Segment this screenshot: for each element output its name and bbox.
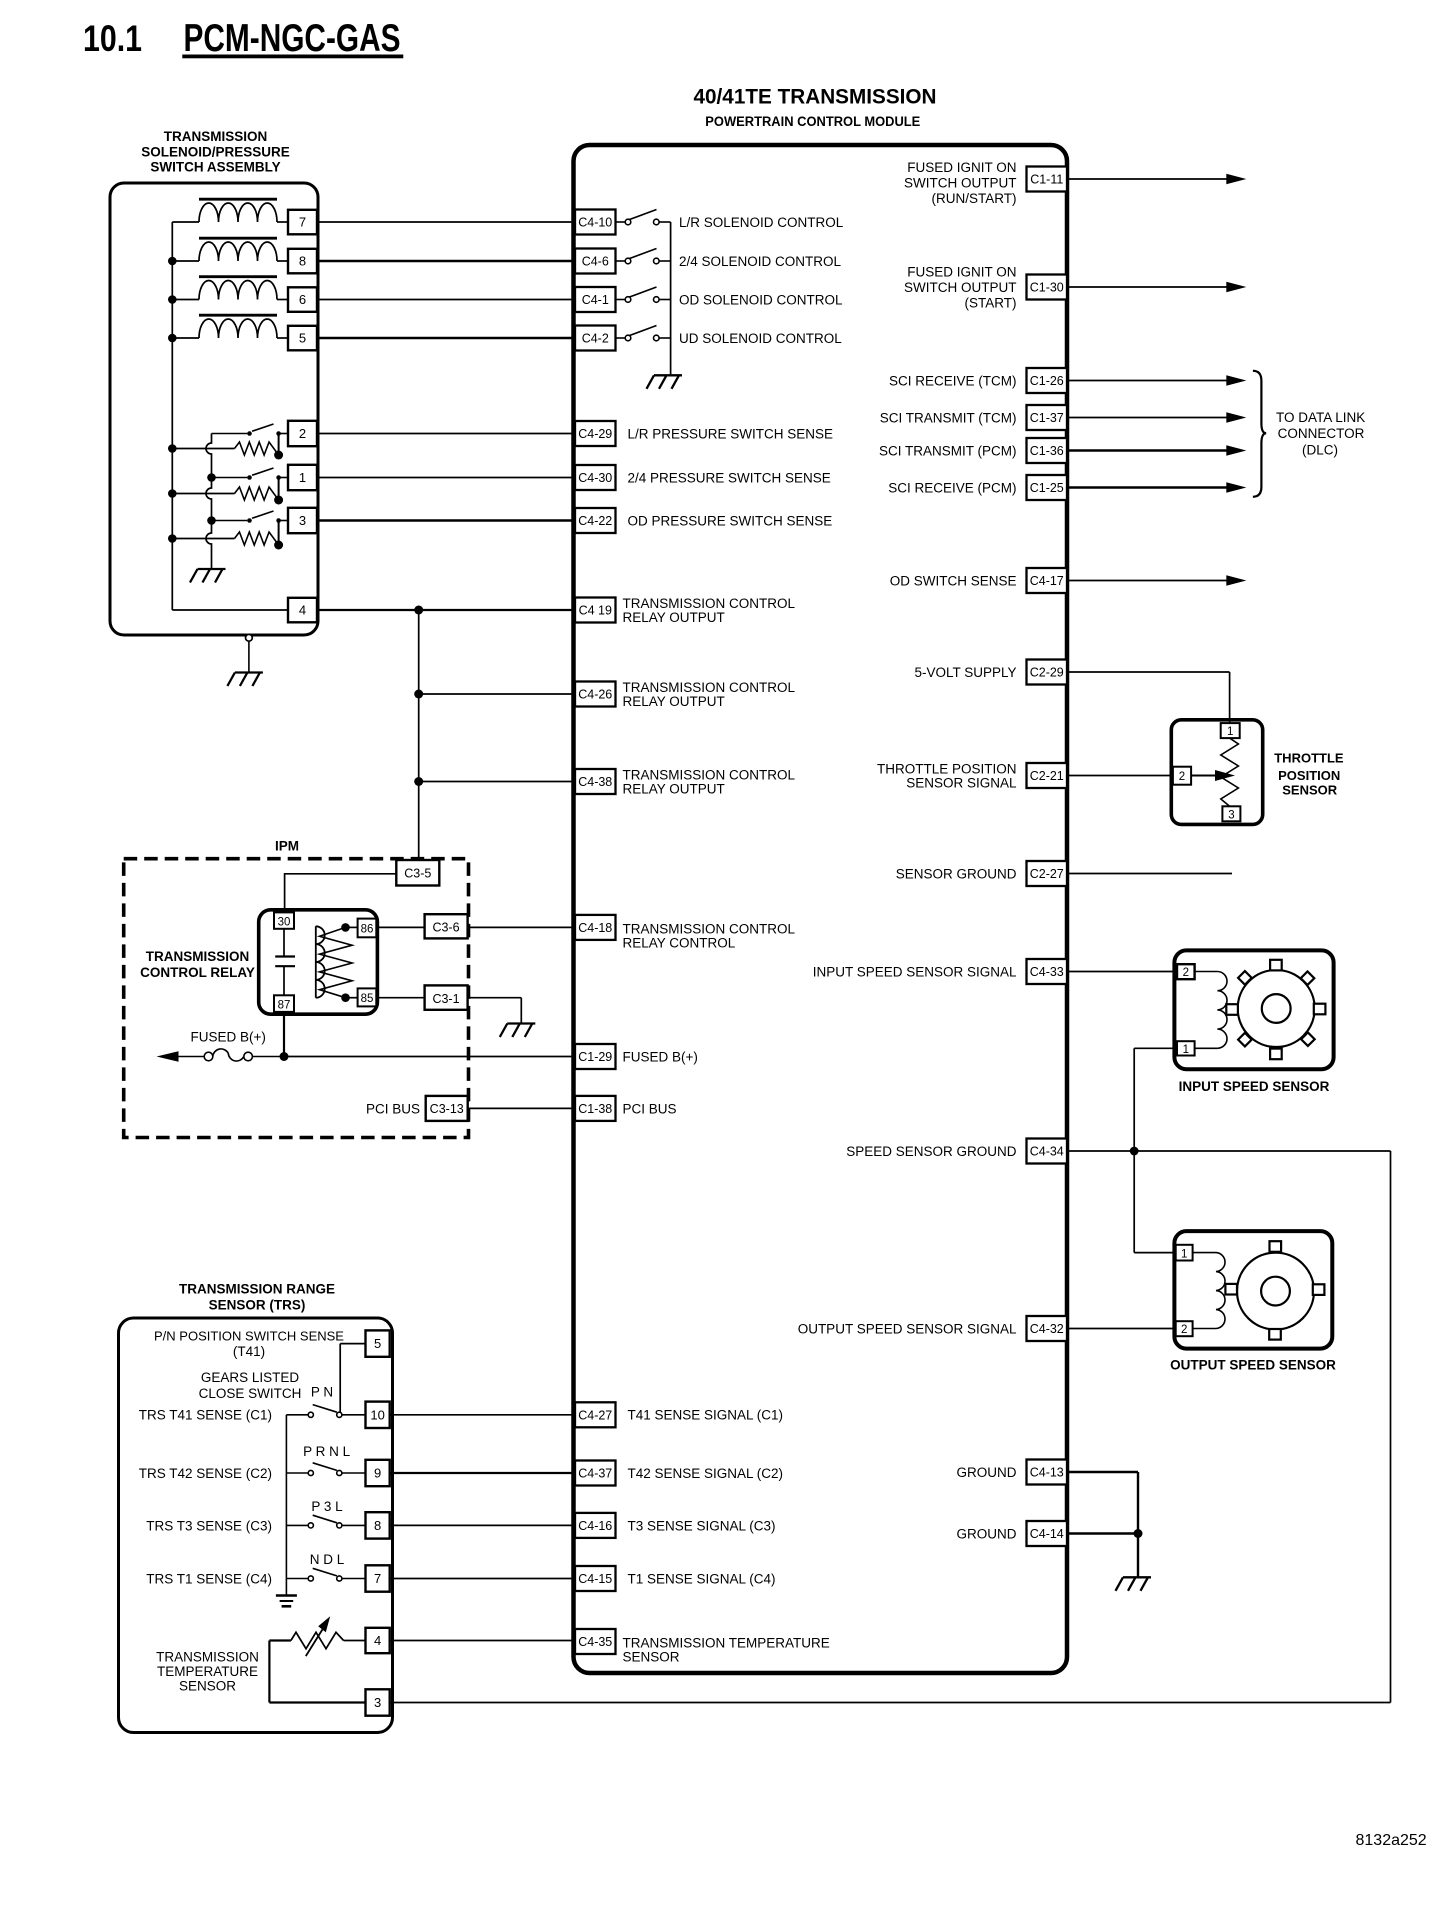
svg-text:C4-34: C4-34: [1030, 1145, 1064, 1159]
svg-text:GROUND: GROUND: [957, 1465, 1017, 1480]
svg-text:TRS T42 SENSE (C2): TRS T42 SENSE (C2): [139, 1466, 272, 1481]
svg-text:TRANSMISSION CONTROL: TRANSMISSION CONTROL: [623, 596, 796, 611]
svg-text:SCI TRANSMIT (TCM): SCI TRANSMIT (TCM): [880, 410, 1017, 425]
svg-text:TRANSMISSION: TRANSMISSION: [156, 1650, 259, 1665]
svg-text:C3-6: C3-6: [432, 921, 459, 935]
svg-text:C4-15: C4-15: [578, 1572, 612, 1586]
svg-text:UD SOLENOID CONTROL: UD SOLENOID CONTROL: [679, 331, 842, 346]
svg-text:TEMPERATURE: TEMPERATURE: [157, 1664, 258, 1679]
svg-text:SWITCH OUTPUT: SWITCH OUTPUT: [904, 175, 1017, 190]
svg-text:SENSOR: SENSOR: [179, 1679, 236, 1694]
svg-text:C4 19: C4 19: [579, 604, 612, 618]
svg-text:1: 1: [299, 470, 306, 485]
svg-text:IPM: IPM: [275, 839, 299, 854]
svg-text:SPEED SENSOR GROUND: SPEED SENSOR GROUND: [846, 1144, 1017, 1159]
svg-text:C4-16: C4-16: [578, 1519, 612, 1533]
svg-text:7: 7: [299, 215, 306, 230]
svg-text:8: 8: [374, 1518, 381, 1533]
svg-text:C1-37: C1-37: [1030, 411, 1064, 425]
svg-text:THROTTLE POSITION: THROTTLE POSITION: [877, 761, 1017, 776]
svg-text:PCI BUS: PCI BUS: [623, 1101, 677, 1116]
svg-text:T3 SENSE SIGNAL (C3): T3 SENSE SIGNAL (C3): [628, 1518, 776, 1533]
svg-text:3: 3: [374, 1695, 381, 1710]
svg-text:7: 7: [374, 1571, 381, 1586]
svg-text:C3-13: C3-13: [430, 1102, 464, 1116]
svg-text:2: 2: [1179, 771, 1185, 783]
svg-text:(T41): (T41): [233, 1344, 265, 1359]
svg-text:OUTPUT SPEED SENSOR SIGNAL: OUTPUT SPEED SENSOR SIGNAL: [798, 1321, 1017, 1336]
svg-text:9: 9: [374, 1466, 381, 1481]
svg-text:TRANSMISSION RANGE: TRANSMISSION RANGE: [179, 1282, 335, 1297]
svg-text:C4-29: C4-29: [578, 427, 612, 441]
svg-text:CLOSE SWITCH: CLOSE SWITCH: [199, 1386, 302, 1401]
svg-text:C4-32: C4-32: [1030, 1322, 1064, 1336]
svg-text:SOLENOID/PRESSURE: SOLENOID/PRESSURE: [141, 145, 290, 160]
svg-text:P 3 L: P 3 L: [311, 1499, 343, 1514]
svg-text:SCI RECEIVE (PCM): SCI RECEIVE (PCM): [888, 480, 1016, 495]
svg-text:1: 1: [1227, 726, 1233, 738]
svg-text:C3-1: C3-1: [432, 992, 459, 1006]
svg-text:OD SOLENOID CONTROL: OD SOLENOID CONTROL: [679, 292, 843, 307]
svg-text:TRANSMISSION CONTROL: TRANSMISSION CONTROL: [623, 921, 796, 936]
svg-text:C4-22: C4-22: [578, 514, 612, 528]
svg-text:(RUN/START): (RUN/START): [932, 191, 1017, 206]
svg-text:2: 2: [1181, 1324, 1187, 1336]
svg-text:C4-33: C4-33: [1030, 965, 1064, 979]
svg-text:FUSED B(+): FUSED B(+): [191, 1030, 266, 1045]
svg-text:FUSED IGNIT ON: FUSED IGNIT ON: [907, 264, 1016, 279]
svg-text:C4-38: C4-38: [578, 775, 612, 789]
svg-text:N D L: N D L: [310, 1552, 345, 1567]
svg-text:40/41TE TRANSMISSION: 40/41TE TRANSMISSION: [694, 85, 937, 109]
svg-text:FUSED IGNIT ON: FUSED IGNIT ON: [907, 160, 1016, 175]
svg-text:T1 SENSE SIGNAL (C4): T1 SENSE SIGNAL (C4): [628, 1571, 776, 1586]
svg-text:3: 3: [1228, 809, 1234, 821]
svg-text:TRANSMISSION CONTROL: TRANSMISSION CONTROL: [623, 767, 796, 782]
svg-text:SWITCH ASSEMBLY: SWITCH ASSEMBLY: [150, 160, 280, 175]
svg-text:TRS T3 SENSE (C3): TRS T3 SENSE (C3): [146, 1518, 272, 1533]
svg-text:RELAY OUTPUT: RELAY OUTPUT: [623, 610, 725, 625]
svg-text:PCM-NGC-GAS: PCM-NGC-GAS: [184, 17, 401, 60]
svg-text:C4-27: C4-27: [578, 1408, 612, 1422]
svg-text:2: 2: [299, 426, 306, 441]
svg-text:2/4 SOLENOID CONTROL: 2/4 SOLENOID CONTROL: [679, 254, 842, 269]
svg-text:OD PRESSURE SWITCH SENSE: OD PRESSURE SWITCH SENSE: [628, 513, 833, 528]
svg-text:C4-14: C4-14: [1030, 1527, 1064, 1541]
svg-text:2/4 PRESSURE SWITCH SENSE: 2/4 PRESSURE SWITCH SENSE: [628, 470, 831, 485]
svg-text:1: 1: [1181, 1248, 1187, 1260]
svg-text:POSITION: POSITION: [1278, 768, 1340, 783]
svg-text:C4-6: C4-6: [582, 255, 609, 269]
svg-text:L/R PRESSURE SWITCH SENSE: L/R PRESSURE SWITCH SENSE: [628, 426, 834, 441]
svg-text:OD SWITCH SENSE: OD SWITCH SENSE: [890, 573, 1017, 588]
svg-text:C1-26: C1-26: [1030, 374, 1064, 388]
svg-text:P/N POSITION SWITCH SENSE: P/N POSITION SWITCH SENSE: [154, 1329, 344, 1344]
svg-text:5: 5: [299, 331, 306, 346]
svg-text:TRS T1 SENSE (C4): TRS T1 SENSE (C4): [146, 1571, 272, 1586]
svg-text:2: 2: [1183, 967, 1189, 979]
svg-text:85: 85: [361, 993, 374, 1005]
svg-text:4: 4: [374, 1633, 381, 1648]
svg-text:POWERTRAIN CONTROL MODULE: POWERTRAIN CONTROL MODULE: [705, 114, 920, 129]
svg-text:3: 3: [299, 513, 306, 528]
svg-text:SENSOR GROUND: SENSOR GROUND: [896, 866, 1017, 881]
svg-text:OUTPUT SPEED SENSOR: OUTPUT SPEED SENSOR: [1170, 1358, 1336, 1373]
svg-text:C4-35: C4-35: [578, 1635, 612, 1649]
svg-text:P N: P N: [311, 1385, 333, 1400]
svg-text:P R N L: P R N L: [303, 1444, 351, 1459]
svg-text:L/R SOLENOID CONTROL: L/R SOLENOID CONTROL: [679, 215, 844, 230]
svg-text:C2-29: C2-29: [1030, 666, 1064, 680]
svg-text:8132a252: 8132a252: [1356, 1832, 1427, 1849]
svg-text:C4-37: C4-37: [578, 1467, 612, 1481]
svg-text:SENSOR: SENSOR: [623, 1649, 680, 1664]
svg-text:C2-21: C2-21: [1030, 769, 1064, 783]
svg-text:CONNECTOR: CONNECTOR: [1278, 426, 1365, 441]
svg-text:30: 30: [278, 916, 291, 928]
svg-text:RELAY OUTPUT: RELAY OUTPUT: [623, 781, 725, 796]
svg-text:C4-30: C4-30: [578, 471, 612, 485]
svg-text:TRS T41 SENSE (C1): TRS T41 SENSE (C1): [139, 1408, 272, 1423]
svg-text:C4-26: C4-26: [578, 688, 612, 702]
svg-text:GROUND: GROUND: [957, 1526, 1017, 1541]
svg-text:PCI BUS: PCI BUS: [366, 1101, 420, 1116]
svg-text:C4-10: C4-10: [578, 216, 612, 230]
svg-text:TRANSMISSION CONTROL: TRANSMISSION CONTROL: [623, 680, 796, 695]
svg-text:INPUT SPEED SENSOR SIGNAL: INPUT SPEED SENSOR SIGNAL: [813, 964, 1017, 979]
svg-text:10: 10: [370, 1407, 384, 1422]
svg-text:SCI RECEIVE (TCM): SCI RECEIVE (TCM): [889, 373, 1017, 388]
svg-text:C4-17: C4-17: [1030, 574, 1064, 588]
svg-text:C1-11: C1-11: [1030, 173, 1063, 187]
svg-text:(START): (START): [965, 295, 1017, 310]
svg-text:SENSOR: SENSOR: [1282, 783, 1338, 798]
svg-text:TRANSMISSION: TRANSMISSION: [146, 949, 250, 964]
svg-text:TRANSMISSION TEMPERATURE: TRANSMISSION TEMPERATURE: [623, 1635, 830, 1650]
svg-text:C1-29: C1-29: [578, 1050, 612, 1064]
svg-text:T41 SENSE SIGNAL (C1): T41 SENSE SIGNAL (C1): [628, 1408, 784, 1423]
svg-text:THROTTLE: THROTTLE: [1274, 751, 1344, 766]
svg-text:SWITCH OUTPUT: SWITCH OUTPUT: [904, 280, 1017, 295]
svg-text:TRANSMISSION: TRANSMISSION: [164, 129, 268, 144]
svg-text:C1-38: C1-38: [578, 1102, 612, 1116]
svg-text:C1-25: C1-25: [1030, 481, 1064, 495]
svg-text:SCI TRANSMIT (PCM): SCI TRANSMIT (PCM): [879, 443, 1017, 458]
svg-text:CONTROL RELAY: CONTROL RELAY: [140, 965, 255, 980]
svg-text:C4-18: C4-18: [578, 921, 612, 935]
svg-text:INPUT SPEED SENSOR: INPUT SPEED SENSOR: [1179, 1079, 1330, 1094]
svg-text:8: 8: [299, 254, 306, 269]
svg-text:C4-13: C4-13: [1030, 1466, 1064, 1480]
svg-text:RELAY OUTPUT: RELAY OUTPUT: [623, 694, 725, 709]
svg-text:87: 87: [278, 999, 291, 1011]
svg-text:FUSED B(+): FUSED B(+): [623, 1049, 698, 1064]
svg-text:5-VOLT SUPPLY: 5-VOLT SUPPLY: [914, 665, 1016, 680]
svg-text:TO DATA LINK: TO DATA LINK: [1276, 410, 1365, 425]
svg-text:5: 5: [374, 1336, 381, 1351]
svg-text:C1-36: C1-36: [1030, 444, 1064, 458]
svg-text:RELAY CONTROL: RELAY CONTROL: [623, 935, 736, 950]
svg-text:SENSOR (TRS): SENSOR (TRS): [209, 1298, 306, 1313]
svg-text:SENSOR SIGNAL: SENSOR SIGNAL: [906, 775, 1017, 790]
svg-text:6: 6: [299, 292, 306, 307]
svg-text:C3-5: C3-5: [404, 866, 431, 880]
svg-text:C4-2: C4-2: [582, 332, 609, 346]
svg-text:C1-30: C1-30: [1030, 281, 1064, 295]
svg-text:10.1: 10.1: [83, 18, 142, 59]
svg-text:1: 1: [1183, 1044, 1189, 1056]
svg-text:86: 86: [361, 923, 374, 935]
svg-text:T42 SENSE SIGNAL (C2): T42 SENSE SIGNAL (C2): [628, 1466, 784, 1481]
svg-text:GEARS LISTED: GEARS LISTED: [201, 1370, 300, 1385]
svg-text:(DLC): (DLC): [1302, 442, 1338, 457]
svg-text:C4-1: C4-1: [582, 293, 609, 307]
svg-text:C2-27: C2-27: [1030, 867, 1064, 881]
svg-text:4: 4: [299, 603, 306, 618]
